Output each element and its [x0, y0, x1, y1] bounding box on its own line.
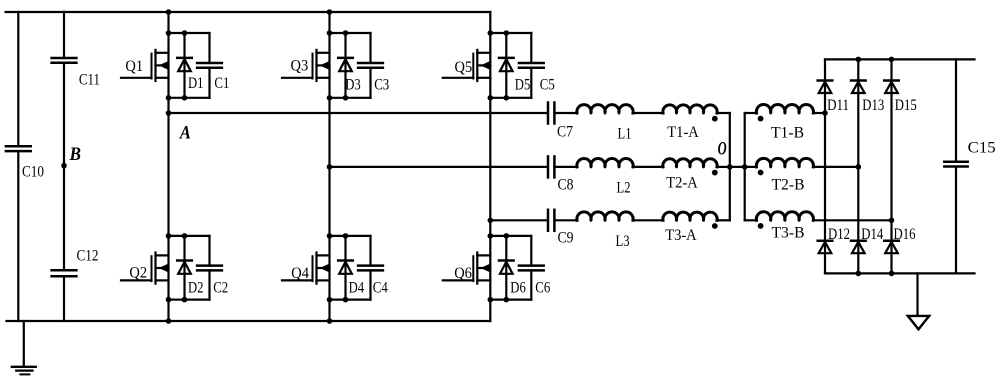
svg-text:C15: C15: [968, 139, 996, 156]
svg-text:D1: D1: [188, 75, 204, 92]
svg-text:C4: C4: [373, 280, 388, 297]
svg-text:C12: C12: [77, 248, 99, 265]
svg-text:D16: D16: [894, 226, 916, 243]
svg-text:L2: L2: [617, 180, 631, 197]
svg-text:C8: C8: [558, 177, 574, 194]
svg-text:C11: C11: [79, 71, 100, 88]
svg-text:Q1: Q1: [125, 58, 143, 75]
svg-text:C1: C1: [214, 75, 229, 92]
svg-text:A: A: [179, 122, 191, 143]
svg-text:Q2: Q2: [129, 265, 147, 282]
svg-text:Q3: Q3: [291, 58, 309, 75]
svg-text:T2-B: T2-B: [772, 177, 805, 194]
svg-text:L3: L3: [616, 233, 630, 250]
svg-text:D15: D15: [895, 97, 917, 114]
svg-text:C3: C3: [374, 77, 389, 94]
svg-text:T2-A: T2-A: [666, 174, 698, 191]
svg-text:D6: D6: [510, 280, 526, 297]
svg-text:D2: D2: [188, 280, 204, 297]
svg-text:Q5: Q5: [455, 59, 473, 76]
svg-text:D4: D4: [349, 280, 365, 297]
svg-text:D11: D11: [827, 97, 849, 114]
svg-text:T1-B: T1-B: [771, 124, 804, 141]
svg-text:C7: C7: [557, 124, 573, 141]
svg-text:D13: D13: [862, 97, 884, 114]
svg-text:T1-A: T1-A: [667, 124, 699, 141]
svg-text:C10: C10: [22, 164, 44, 181]
svg-text:D5: D5: [515, 77, 531, 94]
svg-text:O: O: [718, 139, 727, 160]
svg-text:D14: D14: [861, 226, 883, 243]
svg-text:Q4: Q4: [291, 265, 309, 282]
svg-text:T3-A: T3-A: [665, 227, 697, 244]
svg-text:C2: C2: [213, 280, 228, 297]
svg-text:D12: D12: [828, 226, 850, 243]
svg-text:B: B: [69, 144, 81, 165]
svg-text:T3-B: T3-B: [772, 225, 805, 242]
svg-text:D3: D3: [345, 77, 361, 94]
svg-text:C6: C6: [535, 280, 550, 297]
svg-text:Q6: Q6: [454, 265, 472, 282]
svg-text:C9: C9: [558, 230, 574, 247]
svg-text:C5: C5: [540, 77, 555, 94]
svg-text:L1: L1: [618, 126, 632, 143]
